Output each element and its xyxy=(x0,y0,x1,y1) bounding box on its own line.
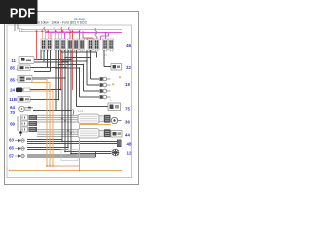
svg-text:11: 11 xyxy=(11,58,16,63)
svg-text:46: 46 xyxy=(126,43,132,48)
svg-text:65: 65 xyxy=(9,145,14,150)
svg-text:18: 18 xyxy=(125,82,130,87)
svg-text:69: 69 xyxy=(10,121,15,126)
svg-text:85: 85 xyxy=(10,66,15,71)
svg-text:12: 12 xyxy=(127,150,132,155)
svg-text:11B: 11B xyxy=(9,97,17,102)
svg-text:3: 3 xyxy=(110,99,112,102)
svg-text:1: 1 xyxy=(7,167,9,171)
svg-text:32: 32 xyxy=(126,65,131,70)
svg-text:a 12: a 12 xyxy=(78,109,84,113)
svg-text:PDF: PDF xyxy=(10,6,35,20)
svg-text:48: 48 xyxy=(127,141,132,146)
svg-text:44: 44 xyxy=(125,133,130,138)
svg-text:85: 85 xyxy=(10,78,15,83)
svg-text:70: 70 xyxy=(10,110,15,115)
svg-text:x 30: x 30 xyxy=(64,56,69,59)
svg-text:86: 86 xyxy=(66,154,69,157)
svg-text:24: 24 xyxy=(10,87,15,92)
svg-text:6 10kw - 10kw - Ford (8C) V ED: 6 10kw - 10kw - Ford (8C) V EDC xyxy=(38,21,88,25)
svg-text:63: 63 xyxy=(9,137,14,142)
svg-text:15: 15 xyxy=(104,54,107,57)
svg-text:x 30: x 30 xyxy=(66,150,71,153)
svg-text:}: } xyxy=(73,110,75,116)
svg-text:36: 36 xyxy=(125,120,130,125)
svg-text:57: 57 xyxy=(9,153,14,158)
svg-text:75: 75 xyxy=(125,107,130,112)
